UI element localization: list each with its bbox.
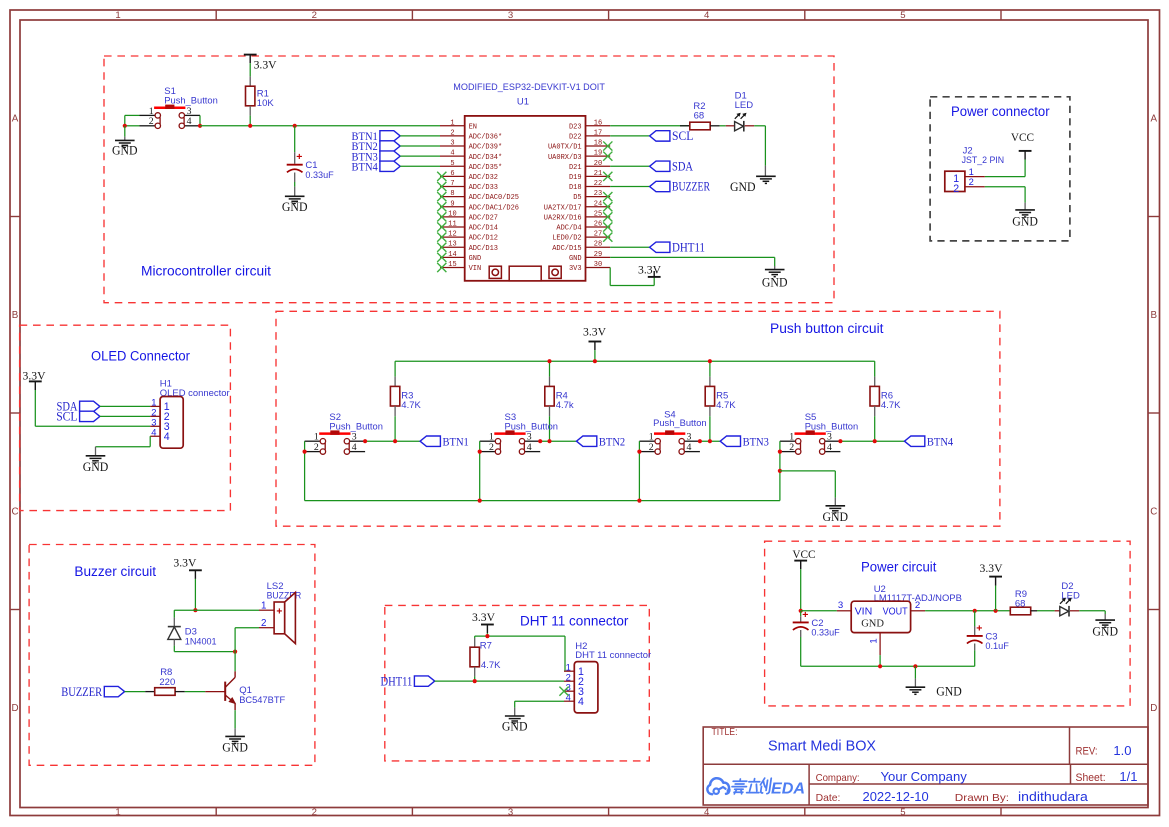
pin 21 D19	[569, 170, 610, 182]
svg-text:ADC/D34*: ADC/D34*	[469, 154, 503, 162]
svg-text:ADC/D4: ADC/D4	[556, 225, 581, 233]
svg-text:DHT11: DHT11	[381, 674, 413, 688]
svg-text:GND: GND	[83, 460, 109, 474]
svg-text:3: 3	[508, 10, 513, 21]
svg-text:indithudara: indithudara	[1018, 789, 1089, 804]
net flag BTN4	[905, 435, 954, 448]
svg-text:7: 7	[450, 180, 454, 188]
resistor R4	[545, 361, 574, 441]
wire C3 to rail	[974, 644, 976, 667]
svg-text:R7: R7	[480, 641, 492, 652]
pin 20 D21	[569, 160, 610, 172]
wire R2 to D1	[720, 125, 735, 127]
junction S1 left	[123, 124, 127, 128]
push button S3	[480, 412, 558, 454]
svg-text:BTN4: BTN4	[352, 160, 378, 173]
svg-text:3.3V: 3.3V	[638, 262, 661, 276]
wire R8 to Q1 base	[175, 691, 224, 693]
junction S4 pin3	[698, 439, 702, 443]
svg-text:10K: 10K	[257, 98, 275, 109]
junction GND hang	[913, 664, 917, 668]
svg-text:2: 2	[314, 442, 319, 453]
svg-text:Push button circuit: Push button circuit	[770, 321, 884, 336]
svg-text:GND: GND	[823, 510, 849, 524]
svg-text:11: 11	[448, 221, 456, 229]
svg-text:ADC/D27: ADC/D27	[469, 214, 498, 222]
no-connect X	[437, 202, 446, 211]
svg-text:GND: GND	[469, 255, 482, 263]
svg-text:BTN3: BTN3	[743, 435, 769, 448]
push button S5	[780, 412, 858, 454]
resistor R7	[470, 636, 501, 681]
pin 1 EN	[440, 119, 477, 131]
no-connect X	[603, 152, 612, 161]
regulator U2 LM1117T-ADJ/NOPB	[837, 584, 962, 655]
svg-text:18: 18	[594, 140, 602, 148]
svg-text:4.7K: 4.7K	[401, 400, 421, 411]
svg-text:3.3V: 3.3V	[173, 555, 196, 569]
wire S4 left down	[638, 441, 640, 500]
svg-text:Smart Medi BOX: Smart Medi BOX	[768, 738, 876, 755]
power 3.3V (OLED)	[23, 368, 46, 390]
svg-text:Your Company: Your Company	[881, 769, 968, 784]
svg-text:1.0: 1.0	[1113, 743, 1131, 758]
ground	[906, 685, 962, 699]
svg-text:1: 1	[868, 638, 879, 643]
svg-text:2: 2	[489, 442, 494, 453]
resistor R5	[705, 361, 736, 441]
push button S4	[639, 410, 706, 455]
svg-text:ADC/DAC1/D26: ADC/DAC1/D26	[469, 204, 519, 212]
wire to GND symbol	[914, 666, 916, 687]
pin 8 ADC/DAC0/D25	[440, 190, 519, 202]
svg-text:5: 5	[450, 160, 454, 168]
ground	[502, 716, 528, 734]
wire top to buzzer pin1	[174, 609, 259, 611]
svg-text:2: 2	[649, 442, 654, 453]
Microcontroller circuit box	[104, 56, 834, 303]
net flag BTN1	[420, 435, 469, 448]
svg-text:1: 1	[450, 119, 454, 127]
pin 28 ADC/D15	[552, 241, 610, 253]
svg-text:BTN1: BTN1	[443, 435, 469, 448]
Buzzer circuit box	[29, 545, 315, 766]
svg-text:ADC/D33: ADC/D33	[469, 184, 498, 192]
svg-text:GND: GND	[222, 740, 248, 754]
push button S2	[305, 412, 383, 454]
U1 footprint pads	[489, 266, 561, 281]
net flag SDA	[57, 400, 100, 414]
transistor Q1 BC547BTF	[225, 671, 285, 710]
svg-text:1: 1	[261, 600, 266, 611]
svg-text:4: 4	[164, 431, 170, 443]
junction S3 pin2	[478, 450, 482, 454]
pin 29 GND	[569, 251, 610, 263]
svg-text:1: 1	[115, 807, 120, 818]
svg-text:16: 16	[594, 119, 602, 127]
wire S4 pin3 to BTN3	[700, 440, 720, 442]
power VCC (power circuit)	[792, 548, 815, 569]
svg-text:1N4001: 1N4001	[185, 636, 217, 647]
power 3.3V (near U1)	[638, 262, 661, 277]
svg-text:VOUT: VOUT	[883, 607, 908, 618]
wire D3 bottom to Q1 collector	[174, 651, 235, 653]
wire S2 pin3 to BTN1	[365, 440, 420, 442]
ground	[1092, 620, 1118, 639]
LED D1	[735, 113, 747, 132]
svg-text:Push_Button: Push_Button	[329, 421, 383, 432]
pin 18 UA0TX/D1	[548, 140, 610, 152]
svg-text:A: A	[12, 114, 19, 125]
svg-text:ADC/D39*: ADC/D39*	[469, 144, 503, 152]
wire Q1 emitter to GND	[234, 710, 236, 736]
no-connect X	[603, 222, 612, 231]
ground	[762, 270, 788, 290]
ground	[222, 736, 248, 754]
svg-text:UA2TX/D17: UA2TX/D17	[544, 204, 582, 212]
wire H1 pin4 to GND	[96, 436, 151, 456]
wire VCC down	[800, 569, 802, 611]
no-connect X	[437, 172, 446, 181]
svg-text:10: 10	[448, 210, 456, 218]
svg-text:Drawn By:: Drawn By:	[955, 793, 1009, 804]
svg-text:8: 8	[450, 190, 454, 198]
svg-text:VIN: VIN	[855, 607, 873, 618]
svg-text:JST_2 PIN: JST_2 PIN	[962, 155, 1005, 166]
resistor R1	[246, 76, 275, 115]
net flag BTN3	[720, 435, 769, 448]
wire S1 right vertical	[199, 115, 201, 125]
svg-text:REV:: REV:	[1076, 746, 1098, 758]
svg-text:1: 1	[789, 432, 794, 443]
junction R3 bottom	[393, 439, 397, 443]
resistor R3	[390, 361, 421, 441]
svg-text:4: 4	[527, 442, 532, 453]
svg-text:4: 4	[827, 442, 832, 453]
wire S2 left down	[304, 441, 306, 500]
power 3.3V (regulator output)	[980, 561, 1003, 611]
junction collector	[233, 650, 237, 654]
pin 14 GND	[440, 251, 481, 263]
svg-text:2022-12-10: 2022-12-10	[863, 789, 929, 804]
svg-text:Company:: Company:	[816, 773, 860, 784]
svg-text:24: 24	[594, 200, 602, 208]
svg-text:3: 3	[527, 432, 532, 443]
pin 13 ADC/D13	[440, 241, 498, 253]
svg-text:+: +	[976, 622, 982, 634]
svg-text:2: 2	[149, 116, 154, 127]
wire pin22 to BUZZER flag	[610, 186, 649, 188]
svg-text:26: 26	[594, 221, 602, 229]
no-connect X	[603, 202, 612, 211]
svg-text:Sheet:: Sheet:	[1076, 772, 1106, 784]
svg-text:SCL: SCL	[672, 129, 693, 143]
no-connect X	[603, 212, 612, 221]
wire BTN2 to U1	[400, 145, 440, 147]
svg-text:Buzzer circuit: Buzzer circuit	[74, 564, 156, 579]
junction rail	[708, 359, 712, 363]
svg-text:ADC/D14: ADC/D14	[469, 225, 498, 233]
capacitor C3	[967, 622, 1009, 652]
svg-text:UA2RX/D16: UA2RX/D16	[544, 214, 582, 222]
wire J2 pin2 to GND	[985, 187, 1025, 210]
svg-text:SDA: SDA	[672, 159, 693, 173]
svg-text:VCC: VCC	[792, 548, 815, 561]
junction S2 pin3	[363, 439, 367, 443]
wire pin17 to SCL flag	[610, 135, 649, 137]
junction S4 pin2	[637, 450, 641, 454]
wire S3 left down	[479, 441, 481, 500]
connector H1 OLED connector	[150, 378, 229, 448]
Power circuit box	[765, 541, 1131, 706]
junction rail 3.3V	[593, 359, 597, 363]
svg-text:D: D	[11, 703, 18, 714]
Power connector box	[930, 97, 1070, 241]
wire C2 to rail	[800, 630, 802, 666]
svg-text:1: 1	[489, 432, 494, 443]
svg-text:BUZZER: BUZZER	[61, 685, 103, 699]
connector J2 JST_2 PIN	[945, 146, 1004, 195]
svg-text:3.3V: 3.3V	[980, 561, 1003, 575]
svg-text:4: 4	[687, 442, 692, 453]
svg-text:C: C	[11, 507, 18, 518]
svg-text:GND: GND	[861, 618, 884, 629]
svg-text:Microcontroller circuit: Microcontroller circuit	[141, 264, 271, 279]
pin 11 ADC/D14	[440, 221, 498, 233]
net flag DHT11	[650, 240, 705, 254]
DHT 11 connector box	[385, 605, 650, 761]
junction bottom rail S3	[478, 499, 482, 503]
wire S5 pin3 to BTN4	[840, 440, 904, 442]
junction R4 bottom	[547, 439, 551, 443]
svg-text:1/1: 1/1	[1119, 769, 1137, 784]
svg-text:25: 25	[594, 210, 602, 218]
junction U2 GND	[878, 664, 882, 668]
svg-text:19: 19	[594, 150, 602, 158]
wire VCC to J2 pin1	[985, 160, 1025, 177]
capacitor C3 branch	[974, 611, 976, 635]
svg-text:ADC/D35*: ADC/D35*	[469, 164, 503, 172]
svg-text:Power circuit: Power circuit	[861, 559, 937, 574]
ground	[112, 140, 138, 157]
svg-text:ADC/D32: ADC/D32	[469, 174, 498, 182]
junction C1	[293, 124, 297, 128]
wire R1 to main	[249, 116, 251, 126]
svg-text:OLED Connector: OLED Connector	[91, 348, 190, 363]
svg-text:LED0/D2: LED0/D2	[552, 235, 581, 243]
svg-text:3.3V: 3.3V	[472, 610, 495, 624]
wire 3.3V to H1 pin3	[35, 390, 150, 426]
svg-text:D19: D19	[569, 174, 582, 182]
no-connect X	[437, 263, 446, 272]
ground	[282, 196, 308, 214]
svg-text:15: 15	[448, 261, 456, 269]
junction buzzer top	[193, 608, 197, 612]
pin 15 VIN	[440, 261, 481, 273]
EasyEDA logo	[707, 778, 805, 797]
svg-text:4: 4	[704, 807, 710, 818]
junction R5 bottom	[708, 439, 712, 443]
svg-text:0.1uF: 0.1uF	[985, 641, 1009, 652]
svg-text:ADC/D36*: ADC/D36*	[469, 134, 503, 142]
svg-text:3V3: 3V3	[569, 265, 582, 273]
svg-text:2: 2	[953, 183, 959, 195]
junction S5 pin2	[778, 450, 782, 454]
diode D3 1N4001	[168, 610, 217, 651]
svg-text:BTN4: BTN4	[927, 435, 953, 448]
svg-text:GND: GND	[730, 180, 756, 194]
pin 4 ADC/D34*	[440, 150, 502, 162]
svg-text:UA0TX/D1: UA0TX/D1	[548, 144, 582, 152]
svg-text:220: 220	[159, 677, 175, 688]
svg-text:TITLE:: TITLE:	[712, 727, 738, 738]
svg-text:2: 2	[789, 442, 794, 453]
wire pin28 to DHT11 flag	[610, 246, 649, 248]
junction VCC/C2	[799, 609, 803, 613]
power 3.3V (DHT)	[472, 610, 495, 633]
svg-text:5: 5	[900, 10, 905, 21]
svg-text:B: B	[12, 310, 19, 321]
svg-text:DHT 11 connector: DHT 11 connector	[520, 613, 629, 628]
svg-text:Push_Button: Push_Button	[164, 96, 218, 107]
svg-text:1: 1	[115, 10, 120, 21]
pin 22 D18	[569, 180, 610, 192]
svg-text:Power connector: Power connector	[951, 104, 1050, 119]
svg-text:+: +	[802, 609, 808, 621]
wire BTN3 to U1	[400, 155, 440, 157]
pin 6 ADC/D32	[440, 170, 498, 182]
wire S3 pin3 to BTN2	[540, 440, 576, 442]
svg-text:Push_Button: Push_Button	[505, 421, 559, 432]
svg-text:20: 20	[594, 160, 602, 168]
pin 3 ADC/D39*	[440, 140, 502, 152]
net flag BUZZER	[61, 685, 124, 699]
svg-text:MODIFIED_ESP32-DEVKIT-V1 DOIT: MODIFIED_ESP32-DEVKIT-V1 DOIT	[453, 82, 605, 92]
wire branch to GND	[780, 471, 835, 506]
resistor R9	[1010, 589, 1030, 615]
svg-text:4: 4	[704, 10, 710, 21]
capacitor C1	[287, 151, 334, 181]
svg-text:ADC/DAC0/D25: ADC/DAC0/D25	[469, 194, 519, 202]
svg-text:C: C	[1150, 507, 1157, 518]
junction S5 pin3	[838, 439, 842, 443]
wire C1 to GND	[294, 173, 296, 197]
wire 3.3V to top run	[486, 633, 488, 636]
wire S5 left down	[779, 441, 781, 500]
resistor R2	[680, 101, 720, 130]
junction R1	[248, 124, 252, 128]
svg-text:DHT 11 connector: DHT 11 connector	[575, 650, 651, 661]
wire D2 to GND	[1070, 611, 1105, 620]
svg-text:BC547BTF: BC547BTF	[239, 695, 285, 706]
svg-text:UA0RX/D3: UA0RX/D3	[548, 154, 582, 162]
no-connect X	[437, 212, 446, 221]
wire H2 pin4 to GND	[515, 701, 564, 716]
no-connect X	[437, 182, 446, 191]
wire VOUT run	[925, 610, 1010, 612]
no-connect X	[603, 141, 612, 150]
svg-text:D18: D18	[569, 184, 582, 192]
svg-text:0.33uF: 0.33uF	[811, 628, 839, 639]
wire bottom rail	[305, 500, 780, 502]
no-connect X	[603, 172, 612, 181]
svg-text:4.7k: 4.7k	[556, 400, 574, 411]
net flag SDA	[650, 159, 694, 173]
svg-text:27: 27	[594, 231, 602, 239]
net flag SCL	[650, 129, 694, 143]
junction bottom rail S4	[637, 499, 641, 503]
no-connect X	[437, 192, 446, 201]
pin 5 ADC/D35*	[440, 160, 502, 172]
net flag BUZZER	[650, 180, 711, 194]
svg-text:+: +	[276, 606, 282, 617]
svg-text:GND: GND	[1092, 625, 1118, 639]
svg-text:12: 12	[448, 231, 456, 239]
pin 24 UA2TX/D17	[544, 200, 610, 212]
svg-text:D21: D21	[569, 164, 582, 172]
no-connect X	[437, 253, 446, 262]
svg-text:68: 68	[694, 110, 705, 121]
junction C3	[973, 609, 977, 613]
svg-text:6: 6	[450, 170, 454, 178]
wire pin29 to GND	[610, 257, 775, 269]
pin 30 3V3	[569, 261, 610, 273]
pin 23 D5	[573, 190, 610, 202]
net flag BTN3	[352, 150, 401, 163]
svg-text:U1: U1	[517, 97, 529, 108]
svg-text:A: A	[1151, 114, 1158, 125]
pin 17 D22	[569, 129, 610, 141]
ground	[1012, 210, 1038, 229]
wire U2 GND pin to rail	[879, 655, 881, 666]
svg-text:GND: GND	[936, 685, 962, 699]
svg-text:1: 1	[314, 432, 319, 443]
svg-text:0.33uF: 0.33uF	[305, 170, 333, 181]
ground	[730, 176, 776, 194]
svg-text:D5: D5	[573, 194, 581, 202]
no-connect X	[437, 233, 446, 242]
svg-text:30: 30	[594, 261, 602, 269]
junction 3.3V	[485, 634, 489, 638]
wire to C1	[294, 126, 296, 164]
svg-text:BTN2: BTN2	[599, 435, 625, 448]
pin 9 ADC/DAC1/D26	[440, 200, 519, 212]
svg-text:B: B	[1151, 310, 1158, 321]
pin 25 UA2RX/D16	[544, 210, 610, 222]
wire pin20 to SDA flag	[610, 165, 649, 167]
connector H2 DHT 11 connector	[564, 641, 651, 713]
wire buzzer pin2 down	[235, 628, 259, 672]
junction R6 bottom	[873, 439, 877, 443]
svg-text:4: 4	[151, 426, 156, 437]
OLED Connector box	[20, 325, 231, 510]
svg-text:3: 3	[352, 432, 357, 443]
pin 10 ADC/D27	[440, 210, 498, 222]
svg-text:+: +	[296, 151, 302, 163]
wire BTN1 to U1	[400, 135, 440, 137]
pin 27 LED0/D2	[552, 231, 610, 243]
wire S1 to GND	[124, 126, 126, 141]
wire SCL to H1 pin2	[100, 415, 150, 417]
svg-text:17: 17	[594, 129, 602, 137]
wire top run	[475, 636, 565, 671]
wire 3.3V to rail	[594, 350, 596, 361]
svg-text:Date:: Date:	[816, 793, 841, 804]
svg-text:3: 3	[187, 106, 192, 117]
svg-text:EDA: EDA	[771, 781, 805, 798]
svg-text:2: 2	[450, 129, 454, 137]
svg-text:SCL: SCL	[56, 410, 77, 424]
